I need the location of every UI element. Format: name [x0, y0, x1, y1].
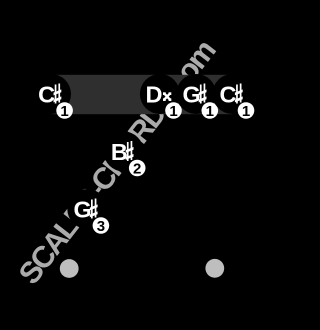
svg-text:1: 1 — [60, 103, 68, 120]
note Dx string4 fret1 — [140, 74, 180, 114]
note G# string5 fret1 — [176, 74, 216, 114]
svg-text:G: G — [74, 196, 92, 222]
note C# string6 fret1 — [212, 74, 252, 114]
note B# string3 fret2 — [104, 132, 144, 172]
finger 2 badge — [129, 160, 146, 178]
finger 1 badge — [165, 102, 182, 120]
finger 3 badge — [93, 217, 110, 235]
note C# string1 fret1 — [31, 74, 71, 114]
svg-text:B: B — [111, 139, 128, 165]
svg-text:1: 1 — [242, 103, 250, 120]
svg-text:1: 1 — [169, 103, 177, 120]
finger 1 badge — [56, 102, 73, 120]
svg-text:G: G — [182, 81, 200, 107]
fret marker dot right — [205, 259, 224, 278]
fret marker dot left — [60, 259, 79, 278]
svg-text:1: 1 — [206, 103, 214, 120]
finger 1 badge — [238, 102, 255, 120]
note G# string2 fret3 — [67, 189, 107, 229]
svg-text:D: D — [146, 81, 163, 107]
svg-text:3: 3 — [97, 218, 105, 235]
svg-text:C: C — [38, 81, 55, 107]
svg-text:C: C — [220, 81, 237, 107]
finger 1 badge — [202, 102, 219, 120]
barre fret 1 — [51, 75, 232, 114]
svg-text:2: 2 — [133, 160, 141, 177]
